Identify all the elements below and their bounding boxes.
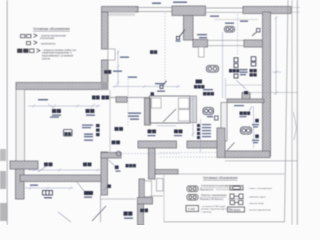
dim hall bottom (112, 86, 180, 88)
legend row1 symbols (21, 34, 38, 38)
bedroom label top (234, 105, 247, 117)
dim hall left vertical (117, 50, 119, 86)
legend box top rule (164, 173, 285, 175)
bedroom switch 1 label (252, 124, 259, 128)
frame left line (6, 0, 8, 225)
wall bottom right vertical (217, 128, 225, 158)
kitchen outline boxes col2 (251, 57, 256, 66)
corner box bath top-left (151, 92, 155, 95)
wall kitchen ledge (244, 40, 265, 47)
socket pair below bath 2 (174, 130, 183, 134)
junction circle corridor (116, 151, 121, 156)
dim kitchen right vertical (275, 16, 277, 95)
dim living bottom (28, 169, 100, 171)
X box right column (215, 116, 219, 120)
legend row3 symbols (18, 49, 41, 53)
bathroom box outline (150, 96, 191, 123)
legend BR row2 left symbol (187, 195, 198, 201)
wall left stub low (10, 161, 38, 169)
entry partition lines (101, 179, 164, 223)
bedroom door diagonal (227, 143, 235, 151)
legend row2 symbol (27, 41, 38, 45)
svg-text:S 300: S 300 (188, 207, 195, 211)
bedroom switch 2 (255, 135, 259, 139)
left margin blob 2 (0, 171, 6, 189)
legend BR right col row1 symbol (230, 186, 243, 190)
wall below bath vertical (149, 148, 156, 179)
legend BR right col row2 symbol (230, 194, 243, 199)
stacked boxes right column (197, 124, 200, 139)
sill line below top window (214, 19, 258, 21)
wall T stem (184, 16, 194, 41)
thin line kitchen counter (226, 84, 262, 86)
leader to panel (77, 182, 84, 191)
socket row entry (124, 212, 133, 216)
wall top T block (172, 6, 206, 16)
wall right vertical (kitchen+bedroom) (263, 12, 271, 156)
socket double circle hall right (207, 66, 219, 73)
wall hall left vertical lower part (102, 60, 109, 84)
left margin blob 1 (0, 149, 6, 161)
kitchen socket pairs col2 (250, 69, 257, 77)
svg-text:- на панель S 300 задан: - на панель S 300 задан (201, 206, 226, 208)
wall junction block living/hall (101, 82, 109, 90)
legend box right rule (285, 0, 289, 222)
svg-text:- точка с телевидением: - точка с телевидением (248, 188, 272, 190)
svg-text:- высота подключения: - высота подключения (248, 210, 271, 212)
socket double circle kitchen top (225, 27, 235, 33)
svg-text:розеток: розеток (42, 59, 51, 61)
wiring bedroom right wall (253, 106, 255, 148)
socket pair below bath 1 (148, 130, 157, 134)
panel box entry mid (84, 191, 93, 195)
svg-text:- выключатель: - выключатель (40, 43, 56, 45)
wall stub to legend (155, 170, 178, 175)
entry door swing (92, 206, 106, 221)
living text block mid (48, 114, 59, 118)
legend BR row1 left symbol (187, 186, 198, 192)
socket pair corridor 2 (112, 141, 121, 145)
window lines right margin (291, 8, 300, 13)
wall entry right vertical lower (138, 204, 144, 225)
wall living room bottom (20, 175, 102, 182)
svg-text:- элементы питания слабых сил: - элементы питания слабых сил (42, 50, 77, 52)
svg-text:Розетка С-40 Storm+1: Розетка С-40 Storm+1 (200, 198, 224, 201)
bathroom furniture box (179, 98, 190, 109)
socket row hall low (194, 85, 204, 89)
panel label entry left (44, 197, 52, 198)
label hall doorway (113, 71, 122, 72)
svg-text:регулир. подсветки круг и стен: регулир. подсветки круг и стен (201, 209, 233, 211)
living right edge labels (82, 125, 93, 135)
wall T foot (193, 40, 208, 48)
frame right line inner (291, 0, 293, 225)
svg-text:Условные обозначения: Условные обозначения (203, 176, 238, 180)
svg-text:водоснабжения с установкой: водоснабжения с установкой (42, 55, 74, 58)
svg-text:с перепад: с перепад (201, 211, 212, 213)
svg-text:Условные обозначения: Условные обозначения (33, 27, 70, 31)
socket row living 1 (52, 109, 61, 113)
bath fixture top-left (152, 98, 162, 108)
box entry interior (107, 185, 111, 189)
living text above dim (38, 99, 48, 100)
wall top segment 3 (243, 7, 291, 14)
leader entry top (109, 160, 115, 166)
door mark kitchen window (252, 29, 260, 37)
svg-text:штепсельная: штепсельная (40, 38, 55, 40)
socket row living low 1 (44, 163, 53, 167)
left margin blob 3 (0, 203, 7, 221)
socket labels below bath (148, 135, 183, 136)
legend box bottom rule (164, 221, 285, 223)
legend BR row3 box S300 (186, 206, 199, 212)
svg-text:- монтаж линии: - монтаж линии (248, 203, 264, 205)
socket pairs at living/hall junction (92, 96, 100, 100)
text above socket row (203, 89, 213, 90)
switch hall low label (157, 91, 165, 92)
frame right line outer (296, 0, 298, 225)
label entry top (116, 171, 121, 172)
wall top segment 1 inner band (106, 12, 135, 16)
dim bath horizontal (157, 125, 176, 127)
wall hall left vertical lower (101, 152, 108, 195)
legend box left rule (163, 174, 165, 222)
socket row right of bath (203, 92, 214, 96)
leader entry interior (104, 187, 108, 191)
bedroom socket row top (240, 112, 251, 116)
label under double socket (207, 116, 213, 117)
living text right (84, 134, 93, 141)
socket row living 2 (86, 109, 95, 113)
svg-text:- в безопасности розетками: - в безопасности розетками (200, 186, 230, 188)
bath sink right (179, 110, 190, 122)
wall bedroom top band (227, 99, 264, 103)
socket row corridor (115, 127, 124, 131)
socket pair junction 2 (102, 96, 110, 100)
shaft column right of bath (190, 96, 197, 123)
wall hall left vertical (102, 12, 109, 49)
wall bedroom corner block (242, 93, 250, 101)
dim kitchen low vertical (225, 78, 227, 99)
window hall-kitchen (208, 40, 245, 45)
wall bedroom left strip (221, 103, 227, 142)
wall mid block (116, 97, 127, 103)
socket row entry top (126, 164, 136, 167)
door leaf top left (108, 49, 115, 60)
kitchen labels (240, 69, 248, 75)
switch hall (176, 30, 185, 40)
leader living bottom door (58, 212, 71, 222)
svg-text:управления кондиционир. и: управления кондиционир. и (42, 53, 72, 55)
wall entry bottom band (138, 198, 153, 205)
wall bottom right band (225, 151, 270, 158)
page curl mark right (294, 112, 297, 140)
window left strip (16, 90, 25, 162)
door leaf entry (145, 181, 152, 197)
door leaf T (199, 47, 205, 57)
wiring corridor vertical (127, 76, 129, 127)
kitchen single socket bottom (244, 91, 248, 95)
small text smudges around plan (30, 2, 248, 186)
panel box hall low (196, 80, 203, 84)
svg-text:3x4 БОКС: 3x4 БОКС (229, 209, 241, 212)
wall left vertical low (16, 169, 25, 199)
single socket entry (115, 166, 119, 170)
corridor thin line (109, 90, 111, 152)
window top 1 (136, 8, 172, 12)
socket pair hall left (150, 50, 157, 54)
svg-text:Розетка 2-кл: Розетка 2-кл (200, 189, 214, 191)
switch hall low (160, 81, 167, 89)
wall entry right vertical upper (139, 179, 145, 198)
legend BR right col row3 symbol (230, 201, 243, 205)
svg-text:- розетка электрическая: - розетка электрическая (40, 35, 67, 37)
thin line plan bottom right (225, 160, 297, 162)
dashed kitchen vertical (237, 14, 239, 55)
center floor box living (64, 130, 73, 137)
bedroom switch 2 label (252, 140, 259, 144)
socket pair hall doorway (104, 70, 111, 74)
kitchen socket row left (229, 69, 239, 73)
socket row entry 2 (140, 209, 148, 213)
thin line kitchen bottom (248, 92, 297, 94)
wall stub right of hall lower (101, 153, 121, 158)
right column labels (202, 124, 211, 137)
double socket right column (203, 108, 214, 115)
bathroom door diagonal (163, 109, 176, 122)
leader kitchen (236, 80, 246, 89)
wall top segment 1 (102, 7, 139, 13)
leader living bottom left (38, 165, 48, 172)
switch hall label (176, 41, 181, 42)
dim living top (28, 105, 100, 107)
panel box entry left (43, 191, 53, 196)
wall bath bottom band B (187, 141, 218, 148)
legend BR right col row4 symbol (228, 207, 245, 212)
dim bath vertical 2 (200, 119, 202, 152)
label living top (52, 115, 95, 116)
wall living room top (16, 83, 102, 90)
bedroom double circle (241, 127, 252, 134)
dim bath vertical 1 (192, 96, 194, 137)
bedroom leader (249, 107, 252, 112)
dim below living wall (25, 187, 73, 189)
socket label entry (124, 218, 133, 219)
dashed corridor (122, 153, 180, 155)
svg-text:- заменяют вдоль: - заменяют вдоль (248, 197, 267, 199)
panel label entry mid (84, 197, 92, 198)
socket row living low 2 (83, 163, 92, 167)
wall bath left vertical (145, 98, 151, 125)
window top 2 (206, 8, 244, 12)
wiring bedroom-left vertical (222, 32, 224, 98)
svg-text:- Розетка с заземлением: - Розетка с заземлением (200, 195, 227, 197)
bedroom switch 1 (255, 119, 259, 123)
wall bath bottom band A (138, 141, 177, 148)
stacked boxes living right edge (96, 124, 100, 136)
kitchen outline boxes col1 (234, 58, 238, 78)
wall mid horizontal thin (110, 97, 150, 99)
